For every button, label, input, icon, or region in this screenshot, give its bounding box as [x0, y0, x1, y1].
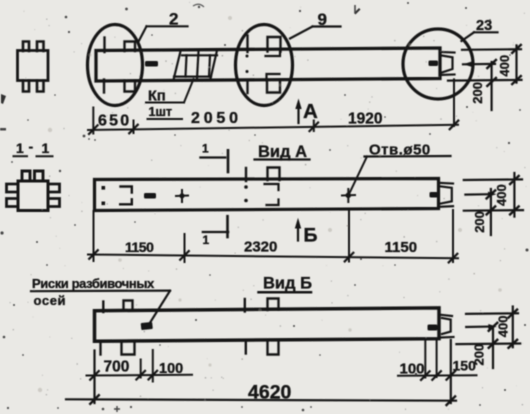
- reinforcement cage Kp (hatched): [174, 51, 217, 78]
- svg-text:400: 400: [495, 315, 510, 337]
- svg-text:2050: 2050: [191, 110, 242, 127]
- beam outline top view: [96, 48, 440, 81]
- top view bottom dimension line: [88, 125, 458, 130]
- svg-text:700: 700: [104, 359, 130, 376]
- svg-text:1920: 1920: [348, 111, 382, 128]
- left marks bottom view: [102, 302, 104, 313]
- middle view dimension line: [88, 255, 458, 259]
- hole cross 1: [176, 190, 188, 202]
- svg-text:1150: 1150: [385, 239, 418, 256]
- label 23: [462, 18, 498, 41]
- faint paper mottling: [38, 16, 502, 392]
- left end tick marks: [103, 38, 105, 53]
- extension lines: [92, 108, 94, 134]
- arrow B (view direction): [295, 218, 318, 247]
- svg-text:-: -: [29, 139, 34, 155]
- svg-text:150: 150: [453, 358, 477, 374]
- bottom-right dims 100 / 150: [424, 342, 426, 378]
- svg-text:осей: осей: [34, 293, 67, 308]
- svg-text:Вид А: Вид А: [258, 143, 307, 161]
- mid marks bottom view: [244, 299, 246, 312]
- hole cross 2 (hole d50): [342, 189, 355, 202]
- svg-text:400: 400: [494, 184, 509, 206]
- svg-text:100: 100: [159, 361, 183, 377]
- callout circle right end (label 23): [403, 29, 473, 99]
- label Otv d50: [350, 142, 451, 193]
- svg-text:А: А: [303, 100, 318, 123]
- slash ticks: [89, 121, 458, 134]
- section cut mark upper: [200, 142, 228, 173]
- section symbol with side tabs: [7, 171, 60, 211]
- right end console detail top view: [440, 52, 455, 75]
- riska dash right end top view: [429, 61, 439, 67]
- svg-text:2320: 2320: [244, 239, 277, 256]
- bottom-left dims 700 / 100: [93, 351, 95, 404]
- svg-text:650: 650: [98, 113, 131, 130]
- svg-text:1: 1: [203, 233, 210, 247]
- svg-text:4620: 4620: [248, 382, 292, 404]
- right dim group top view: extension lines: [462, 48, 521, 51]
- svg-text:200: 200: [472, 211, 487, 233]
- callout ellipse mid (label 9): [236, 25, 293, 106]
- riska dash middle view: [144, 193, 156, 199]
- svg-text:200: 200: [470, 82, 485, 104]
- left corner dots: [102, 186, 106, 190]
- left end tabs: [125, 42, 136, 52]
- svg-text:1шт: 1шт: [149, 105, 173, 119]
- arrow A (view direction): [295, 99, 318, 124]
- label Kp 1sht: [146, 79, 194, 119]
- right console detail bottom view: [441, 315, 454, 338]
- left bracket mark: [121, 187, 132, 193]
- label 9: [290, 10, 341, 39]
- svg-text:1: 1: [42, 140, 50, 156]
- riska dash right bottom view: [428, 325, 438, 331]
- extension lines: [93, 211, 95, 261]
- right dim group bottom view: [466, 312, 518, 315]
- label 2: [138, 10, 188, 43]
- dim 400 vertical top view: [515, 45, 517, 82]
- total dimension 4620: [66, 399, 456, 400]
- label riski razbivochnyh osey: [31, 276, 170, 324]
- callout ellipse left end: [88, 25, 143, 106]
- beam outline middle view: [95, 179, 439, 211]
- section cut mark lower: [203, 216, 229, 247]
- svg-text:400: 400: [497, 55, 512, 77]
- riska dash right middle view: [430, 192, 439, 198]
- svg-text:Риски разбивочных: Риски разбивочных: [32, 276, 155, 291]
- svg-text:100: 100: [400, 361, 425, 378]
- section symbol small (top-left): [18, 42, 49, 92]
- mid marks middle view: [244, 168, 279, 206]
- riska dash left: [145, 61, 158, 67]
- mid ellipse interior marks: [246, 36, 281, 94]
- svg-text:1: 1: [202, 142, 209, 156]
- riska mark (filled): [141, 322, 153, 330]
- slash ticks: [89, 250, 457, 262]
- svg-text:Б: Б: [304, 225, 318, 247]
- dim 200 vertical top view: [491, 62, 493, 110]
- beam outline bottom view: [95, 308, 440, 341]
- svg-text:Вид Б: Вид Б: [263, 275, 312, 293]
- right console detail middle view: [439, 183, 454, 207]
- svg-text:1150: 1150: [125, 239, 154, 255]
- svg-text:1: 1: [16, 140, 24, 156]
- right dim group middle view: [464, 178, 522, 181]
